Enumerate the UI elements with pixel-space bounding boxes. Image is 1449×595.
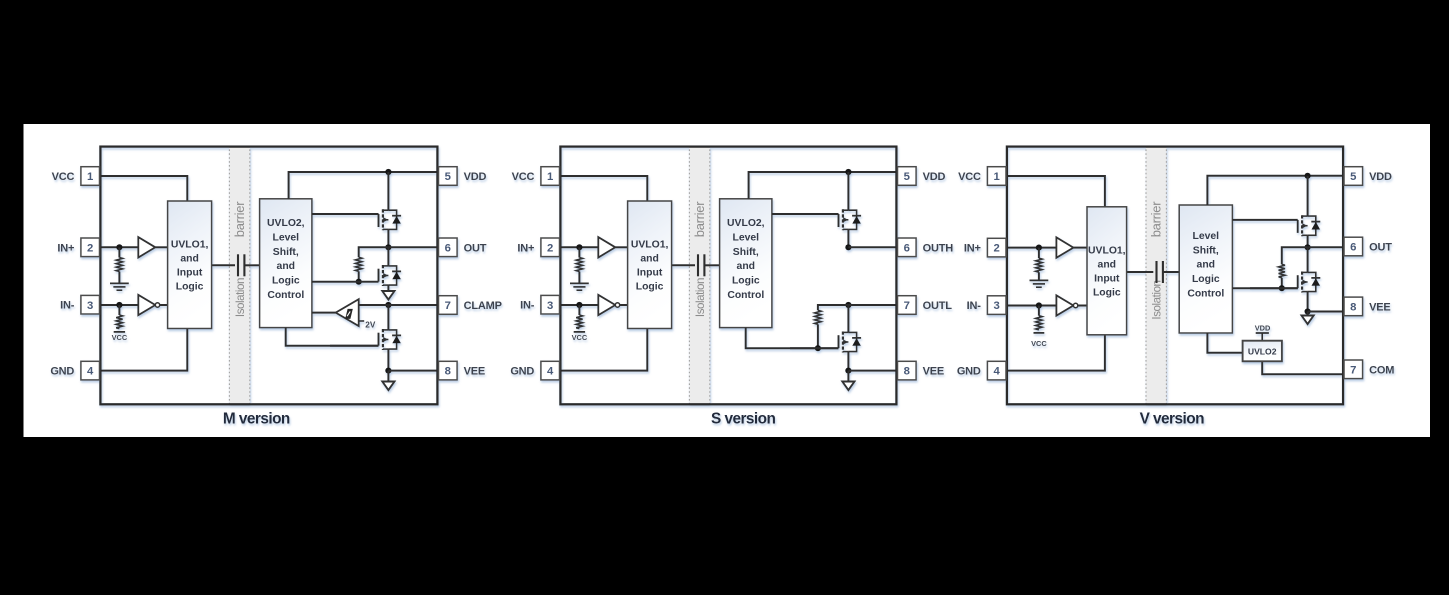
svg-text:VDD: VDD: [1255, 323, 1271, 332]
svg-text:and: and: [1098, 260, 1116, 271]
svg-text:barrier: barrier: [692, 201, 707, 237]
svg-text:VDD: VDD: [464, 171, 487, 183]
svg-text:1: 1: [87, 171, 93, 183]
svg-text:2V: 2V: [365, 320, 376, 329]
svg-text:Logic: Logic: [176, 281, 204, 292]
svg-text:OUT: OUT: [464, 242, 487, 254]
svg-text:3: 3: [547, 300, 553, 312]
svg-text:IN+: IN+: [517, 242, 534, 254]
svg-text:UVLO2,: UVLO2,: [727, 218, 765, 229]
svg-text:UVLO2,: UVLO2,: [267, 218, 305, 229]
svg-text:2: 2: [994, 243, 1000, 255]
svg-text:4: 4: [87, 366, 94, 378]
svg-text:VCC: VCC: [52, 171, 75, 183]
svg-text:and: and: [277, 261, 295, 272]
svg-text:UVLO1,: UVLO1,: [631, 240, 669, 251]
svg-text:V version: V version: [1140, 411, 1204, 428]
svg-text:VDD: VDD: [1369, 171, 1392, 183]
svg-text:6: 6: [1350, 242, 1356, 254]
svg-text:Level: Level: [1193, 231, 1220, 242]
svg-text:Isolation: Isolation: [1150, 280, 1163, 319]
svg-text:GND: GND: [957, 366, 981, 378]
svg-text:VEE: VEE: [1369, 301, 1390, 313]
svg-text:Logic: Logic: [636, 281, 664, 292]
svg-text:Logic: Logic: [732, 276, 760, 287]
svg-text:barrier: barrier: [232, 201, 247, 237]
svg-text:Control: Control: [1187, 289, 1224, 300]
svg-text:and: and: [640, 254, 658, 265]
svg-text:7: 7: [1350, 364, 1356, 376]
svg-text:barrier: barrier: [1148, 201, 1163, 237]
svg-text:7: 7: [445, 300, 451, 312]
svg-text:UVLO1,: UVLO1,: [1088, 246, 1126, 257]
svg-text:Isolation: Isolation: [234, 278, 247, 317]
svg-text:VCC: VCC: [572, 333, 588, 342]
svg-text:OUTL: OUTL: [923, 300, 953, 312]
svg-text:M version: M version: [223, 411, 290, 428]
svg-text:OUTH: OUTH: [923, 242, 954, 254]
svg-text:5: 5: [445, 171, 451, 183]
svg-text:GND: GND: [510, 366, 534, 378]
svg-text:IN+: IN+: [57, 242, 74, 254]
svg-text:GND: GND: [50, 366, 74, 378]
svg-text:3: 3: [994, 300, 1000, 312]
svg-text:IN+: IN+: [964, 243, 981, 255]
svg-text:Logic: Logic: [272, 276, 300, 287]
svg-text:Shift,: Shift,: [1193, 245, 1219, 256]
svg-text:6: 6: [445, 242, 451, 254]
svg-text:8: 8: [904, 366, 910, 378]
svg-text:CLAMP: CLAMP: [464, 300, 502, 312]
svg-text:Input: Input: [1094, 274, 1120, 285]
svg-text:IN-: IN-: [520, 300, 535, 312]
svg-text:Shift,: Shift,: [733, 247, 759, 258]
svg-text:VCC: VCC: [512, 171, 535, 183]
svg-text:Input: Input: [177, 267, 203, 278]
svg-text:1: 1: [547, 171, 553, 183]
svg-text:8: 8: [1350, 302, 1356, 314]
svg-text:Control: Control: [267, 290, 304, 301]
svg-text:1: 1: [994, 171, 1000, 183]
svg-text:7: 7: [904, 300, 910, 312]
svg-text:Level: Level: [733, 232, 760, 243]
svg-text:COM: COM: [1369, 364, 1394, 376]
svg-text:Shift,: Shift,: [273, 247, 299, 258]
svg-text:VEE: VEE: [464, 366, 485, 378]
svg-text:5: 5: [1350, 171, 1356, 183]
svg-text:IN-: IN-: [967, 300, 982, 312]
svg-text:UVLO1,: UVLO1,: [171, 240, 209, 251]
svg-text:Level: Level: [273, 232, 300, 243]
svg-text:VCC: VCC: [958, 171, 981, 183]
svg-text:and: and: [180, 254, 198, 265]
svg-text:6: 6: [904, 242, 910, 254]
svg-text:and: and: [1197, 260, 1215, 271]
svg-text:VEE: VEE: [923, 366, 944, 378]
svg-text:Input: Input: [637, 267, 663, 278]
svg-text:OUT: OUT: [1369, 242, 1392, 254]
svg-text:Control: Control: [727, 290, 764, 301]
svg-text:Logic: Logic: [1192, 274, 1220, 285]
svg-text:Logic: Logic: [1093, 287, 1121, 298]
svg-text:UVLO2: UVLO2: [1248, 346, 1277, 356]
svg-text:5: 5: [904, 171, 910, 183]
svg-text:Isolation: Isolation: [694, 278, 707, 317]
svg-text:3: 3: [87, 300, 93, 312]
svg-text:2: 2: [87, 242, 93, 254]
svg-text:4: 4: [547, 366, 554, 378]
svg-text:4: 4: [994, 366, 1001, 378]
svg-text:8: 8: [445, 366, 451, 378]
svg-text:VCC: VCC: [1031, 339, 1047, 348]
svg-text:VDD: VDD: [923, 171, 946, 183]
svg-text:and: and: [737, 261, 755, 272]
svg-text:IN-: IN-: [60, 300, 75, 312]
svg-text:S version: S version: [711, 411, 775, 428]
svg-text:VCC: VCC: [112, 333, 128, 342]
svg-text:2: 2: [547, 242, 553, 254]
